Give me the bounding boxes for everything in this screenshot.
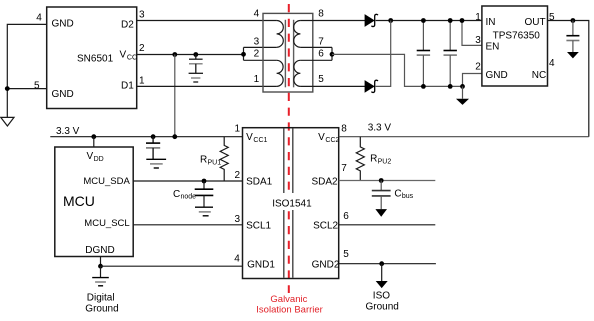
junction dots C2 — [448, 18, 453, 23]
junction dot EN tap — [460, 18, 465, 23]
capacitor Cbus — [372, 181, 391, 210]
svg-text:2: 2 — [235, 170, 241, 181]
svg-text:PU2: PU2 — [378, 159, 392, 166]
svg-text:V: V — [318, 132, 325, 143]
capacitor bypass SN6501 — [189, 55, 203, 74]
svg-text:SCL2: SCL2 — [313, 220, 338, 231]
IC U2 TPS76350 LDO regulator — [482, 6, 548, 86]
resistor RPU2 — [356, 137, 364, 181]
svg-text:1: 1 — [139, 76, 145, 87]
ground earth for bypass cap — [189, 73, 203, 82]
junction dot VDD stub — [91, 134, 96, 139]
wire pin3-pin2 connect bar — [243, 47, 245, 60]
svg-text:R: R — [200, 155, 207, 166]
wire 3.3V iso rail — [339, 136, 589, 138]
svg-text:4: 4 — [254, 8, 260, 19]
isolation barrier red dashed line — [288, 4, 290, 293]
winding secondary lower — [294, 60, 301, 86]
isolation core lines in ISO1541 — [283, 128, 285, 193]
svg-text:4: 4 — [234, 254, 240, 265]
MCU block — [55, 147, 133, 257]
junction dot OUT — [571, 18, 576, 23]
svg-text:6: 6 — [318, 49, 324, 60]
svg-text:GND: GND — [486, 70, 508, 81]
svg-text:C: C — [173, 189, 180, 200]
wire SCL2 — [339, 224, 436, 226]
junction dot rectifier output — [388, 18, 393, 23]
svg-text:EN: EN — [486, 41, 500, 52]
junction dot Vcc A — [172, 52, 177, 57]
svg-text:R: R — [370, 154, 377, 165]
svg-text:MCU: MCU — [63, 193, 95, 209]
junction dot Vcc B — [193, 52, 198, 57]
capacitor MCU rail bypass — [146, 137, 160, 160]
label ISO1541 — [270, 195, 312, 208]
svg-text:GND2: GND2 — [312, 259, 340, 270]
ground earth rail cap — [146, 159, 166, 168]
wire top diode cathode to IN rail — [376, 20, 482, 22]
wire OUT to right edge and down — [548, 21, 589, 137]
svg-text:3: 3 — [235, 214, 241, 225]
svg-text:6: 6 — [343, 211, 349, 222]
svg-text:8: 8 — [341, 124, 347, 135]
svg-text:Ground: Ground — [85, 304, 118, 315]
svg-text:7: 7 — [318, 37, 324, 48]
svg-text:2: 2 — [475, 62, 481, 73]
svg-text:Digital: Digital — [87, 293, 115, 304]
svg-text:IN: IN — [486, 17, 496, 28]
svg-text:C: C — [394, 188, 401, 199]
wire transformer pin 8 to diode D1 — [300, 20, 365, 22]
wire MCU_SCL to ISO SCL1 — [133, 224, 242, 226]
svg-text:Isolation Barrier: Isolation Barrier — [256, 305, 323, 316]
wire SN6501 pin5 GND — [7, 88, 47, 90]
svg-text:3.3 V: 3.3 V — [368, 123, 392, 134]
IC U3 ISO1541 I2C isolator — [243, 128, 339, 279]
wire TPS GND pin down — [463, 74, 482, 87]
junction dot GND2 — [379, 261, 384, 266]
svg-text:8: 8 — [318, 8, 324, 19]
svg-text:3: 3 — [475, 35, 481, 46]
svg-text:TPS76350: TPS76350 — [493, 31, 541, 42]
svg-text:ISO1541: ISO1541 — [272, 198, 312, 209]
wire GND2 — [339, 263, 436, 265]
wire vertical Vcc down to 3.3V rail — [174, 55, 176, 137]
wire transformer pin 6 stub — [300, 59, 332, 61]
wire MCU_SDA to ISO SDA1 — [133, 180, 242, 182]
wire EN tap — [462, 21, 482, 46]
winding primary lower — [277, 60, 284, 86]
resistor RPU1 — [220, 137, 228, 181]
wire Vcc rail to transformer center tap — [137, 54, 244, 56]
svg-text:Galvanic: Galvanic — [270, 294, 307, 305]
junction dot DGND — [98, 264, 103, 269]
svg-text:GND: GND — [52, 89, 74, 100]
svg-text:V: V — [87, 151, 94, 162]
wire transformer pin3 stub — [244, 46, 277, 48]
junction dot Cnode — [202, 179, 207, 184]
wire SN6501 pin4 GND to left rail — [7, 24, 47, 117]
svg-text:4: 4 — [549, 58, 555, 69]
svg-text:7: 7 — [341, 163, 347, 174]
capacitor filter C1 — [417, 21, 430, 87]
junction dot rail vcc vertical — [172, 134, 177, 139]
svg-text:5: 5 — [318, 74, 324, 85]
svg-text:DD: DD — [94, 156, 104, 163]
svg-text:bus: bus — [402, 193, 414, 200]
svg-text:3: 3 — [254, 37, 260, 48]
junction dot GND node — [460, 84, 465, 89]
svg-text:CC: CC — [127, 55, 137, 62]
svg-text:1: 1 — [475, 12, 481, 23]
wire center tap to ground rail — [332, 54, 463, 86]
junction dot left ground node — [5, 86, 10, 91]
schottky rectifier diode (bottom) — [365, 80, 378, 92]
svg-text:2: 2 — [139, 43, 145, 54]
svg-text:D1: D1 — [121, 81, 134, 92]
capacitor Cnode — [195, 181, 214, 207]
svg-text:GND1: GND1 — [247, 259, 275, 270]
wire bottom diode cathode up to output node — [376, 21, 391, 87]
transformer body — [263, 13, 313, 92]
wire 3.3V rail left — [50, 136, 242, 138]
wire transformer pin 5 to diode D2 — [300, 85, 365, 87]
svg-text:DGND: DGND — [85, 245, 114, 256]
svg-text:D2: D2 — [121, 19, 134, 30]
svg-text:NC: NC — [532, 70, 546, 81]
wire VDD stub — [93, 137, 95, 147]
svg-text:1: 1 — [254, 74, 260, 85]
schottky rectifier diode (top) — [365, 14, 378, 26]
svg-text:GND: GND — [52, 18, 74, 29]
IC U1 SN6501 transformer driver — [47, 7, 137, 109]
winding secondary upper — [294, 21, 301, 48]
svg-text:Ground: Ground — [366, 302, 399, 313]
svg-text:V: V — [120, 50, 127, 61]
wire transformer pin 7 stub — [300, 46, 332, 48]
svg-text:1: 1 — [235, 124, 241, 135]
junction dot center tap left — [241, 52, 246, 57]
svg-text:CC2: CC2 — [325, 137, 339, 144]
junction dots C1 — [421, 18, 426, 23]
junction dot center tap right — [330, 52, 335, 57]
ground iso TPS (filled triangle) — [462, 86, 464, 98]
svg-text:OUT: OUT — [525, 17, 546, 28]
svg-text:5: 5 — [34, 80, 40, 91]
wire pin7-pin6 connect bar — [331, 47, 333, 60]
svg-text:PU1: PU1 — [208, 160, 222, 167]
ground iso Cbus (filled triangle) — [375, 209, 387, 217]
wire D1 to transformer pin 1 — [137, 85, 277, 87]
svg-text:3: 3 — [139, 9, 145, 20]
ground iso GND2 (filled triangle) — [381, 264, 383, 281]
svg-text:5: 5 — [343, 249, 349, 260]
junction dot Cbus — [379, 178, 384, 183]
svg-text:ISO: ISO — [373, 291, 390, 302]
wire DGND to ISO GND1 — [101, 265, 243, 267]
svg-text:2: 2 — [254, 49, 260, 60]
svg-text:MCU_SDA: MCU_SDA — [83, 176, 130, 187]
svg-text:CC1: CC1 — [253, 137, 267, 144]
svg-text:V: V — [246, 132, 253, 143]
svg-text:SDA1: SDA1 — [246, 177, 273, 188]
ground earth digital — [100, 266, 102, 277]
ground digital (open triangle) — [1, 117, 14, 126]
winding primary upper — [277, 21, 284, 48]
svg-text:3.3 V: 3.3 V — [56, 126, 80, 137]
wire D2 to transformer pin 4 — [137, 20, 277, 22]
wire transformer pin2 stub — [244, 59, 277, 61]
capacitor filter C2 — [444, 21, 457, 87]
ground iso output cap (filled triangle) — [567, 52, 579, 58]
junction dot rail cap — [151, 134, 156, 139]
svg-text:4: 4 — [36, 13, 42, 24]
transformer core lines — [284, 20, 286, 88]
svg-text:5: 5 — [549, 12, 555, 23]
wire DGND stub — [100, 257, 102, 267]
svg-text:SCL1: SCL1 — [246, 220, 271, 231]
ground earth Cnode — [195, 207, 213, 216]
svg-text:MCU_SCL: MCU_SCL — [84, 218, 129, 229]
wire SDA2 — [339, 180, 436, 182]
capacitor output — [566, 21, 579, 53]
svg-text:node: node — [181, 193, 197, 200]
svg-text:SN6501: SN6501 — [77, 54, 114, 65]
svg-text:SDA2: SDA2 — [312, 177, 339, 188]
